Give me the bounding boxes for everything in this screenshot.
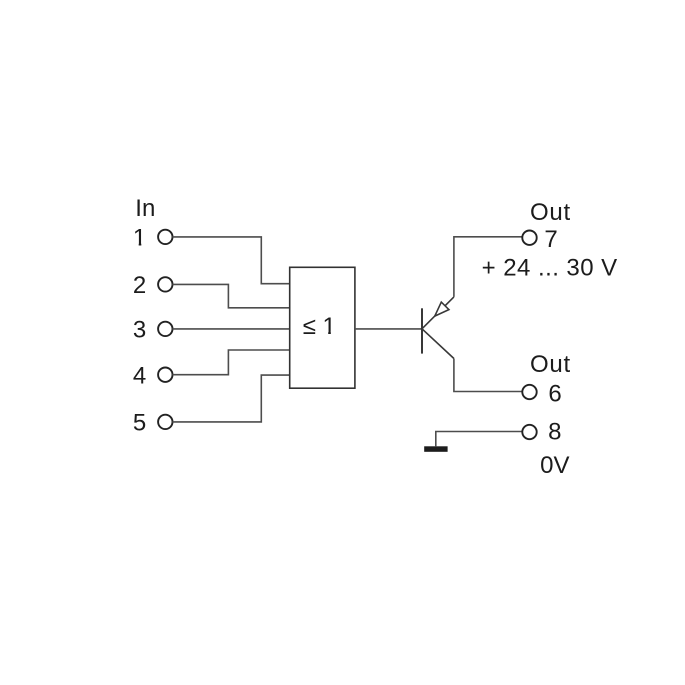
svg-text:Out: Out xyxy=(530,199,571,226)
terminal 4 xyxy=(158,368,172,382)
wire input 2 xyxy=(172,284,289,307)
terminal 7 xyxy=(522,231,536,245)
svg-text:4: 4 xyxy=(133,363,146,390)
svg-text:+ 24 ... 30 V: + 24 ... 30 V xyxy=(482,255,618,282)
terminal 1 xyxy=(158,230,172,244)
svg-text:In: In xyxy=(135,195,155,222)
wire emitter to terminal 7 xyxy=(454,237,523,297)
wire collector to terminal 6 xyxy=(454,359,523,392)
wire input 5 xyxy=(172,375,289,422)
wire gate output to transistor base xyxy=(355,328,421,330)
transistor Q1 xyxy=(422,297,454,359)
svg-text:0V: 0V xyxy=(540,452,569,479)
terminal 2 xyxy=(158,277,172,291)
terminal 8 xyxy=(522,425,536,439)
svg-text:2: 2 xyxy=(133,272,146,299)
svg-text:3: 3 xyxy=(133,317,146,344)
svg-text:Out: Out xyxy=(530,351,571,378)
svg-text:5: 5 xyxy=(133,410,146,437)
wire input 1 xyxy=(172,237,289,284)
svg-text:7: 7 xyxy=(544,226,557,253)
svg-text:6: 6 xyxy=(548,381,561,408)
terminal 6 xyxy=(522,385,536,399)
terminal 5 xyxy=(158,415,172,429)
svg-text:1: 1 xyxy=(133,225,146,252)
ground xyxy=(424,446,447,452)
wire input 4 xyxy=(172,350,289,375)
terminal 3 xyxy=(158,322,172,336)
svg-text:8: 8 xyxy=(548,419,561,446)
OR gate U1 xyxy=(290,267,355,388)
wire input 3 xyxy=(172,328,289,330)
wire terminal 8 to ground xyxy=(436,432,523,447)
svg-text:≤ 1: ≤ 1 xyxy=(303,313,336,340)
